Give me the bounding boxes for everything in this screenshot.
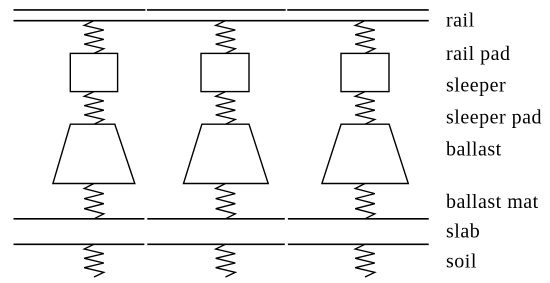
svg-text:rail pad: rail pad (446, 43, 511, 65)
svg-text:ballast mat: ballast mat (446, 191, 539, 213)
svg-text:slab: slab (446, 221, 480, 243)
svg-text:soil: soil (446, 250, 477, 272)
svg-text:rail: rail (446, 10, 475, 32)
svg-text:sleeper: sleeper (446, 74, 506, 96)
svg-text:sleeper pad: sleeper pad (446, 107, 542, 129)
svg-text:ballast: ballast (446, 138, 502, 160)
